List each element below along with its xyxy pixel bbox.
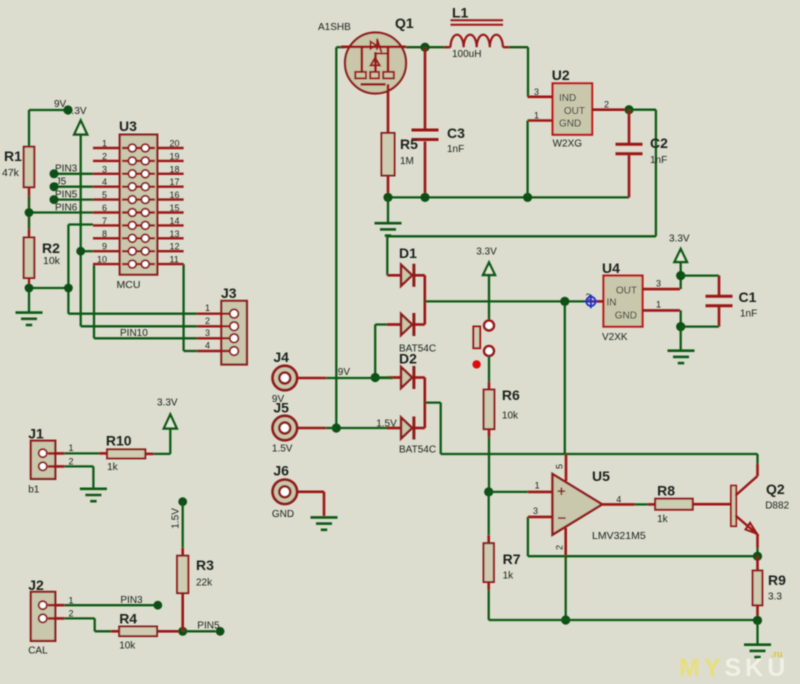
svg-text:3: 3 [533,506,538,516]
svg-text:C1: C1 [739,289,757,305]
svg-text:D2: D2 [399,351,417,367]
svg-text:1.5V: 1.5V [272,444,293,455]
svg-text:3.3V: 3.3V [476,247,497,258]
svg-text:2: 2 [604,100,609,110]
svg-text:J3: J3 [221,285,237,301]
svg-text:R9: R9 [768,572,786,588]
svg-text:1k: 1k [657,514,669,525]
svg-text:10k: 10k [502,411,519,422]
svg-text:J2: J2 [28,577,44,593]
svg-text:1: 1 [205,303,210,313]
svg-text:MCU: MCU [117,279,141,291]
svg-text:14: 14 [170,216,180,226]
svg-text:3.3: 3.3 [768,592,782,603]
svg-text:L1: L1 [452,5,469,21]
svg-text:U5: U5 [592,468,610,484]
svg-text:1nF: 1nF [650,155,667,166]
svg-text:A1SHB: A1SHB [318,22,351,33]
svg-text:2: 2 [102,151,107,161]
svg-text:5: 5 [102,190,107,200]
svg-text:17: 17 [170,177,180,187]
svg-text:R5: R5 [400,136,418,152]
svg-text:PIN3: PIN3 [120,595,143,606]
svg-text:R4: R4 [119,611,137,627]
svg-text:3: 3 [205,328,210,338]
svg-text:BAT54C: BAT54C [399,444,436,455]
svg-text:10k: 10k [119,641,136,652]
svg-text:2: 2 [69,457,74,467]
svg-text:18: 18 [170,164,180,174]
svg-text:1: 1 [69,595,74,605]
svg-text:1: 1 [69,443,74,453]
svg-text:5: 5 [555,464,565,469]
svg-text:1: 1 [535,481,540,491]
svg-text:15: 15 [170,203,180,213]
svg-text:9V: 9V [338,367,351,378]
svg-text:+: + [557,483,566,500]
svg-text:D1: D1 [399,245,417,261]
svg-text:12: 12 [170,242,180,252]
svg-text:16: 16 [170,190,180,200]
svg-text:R1: R1 [4,148,22,164]
svg-text:GND: GND [559,119,581,130]
svg-text:47k: 47k [2,167,20,179]
svg-text:V2XK: V2XK [602,332,628,343]
svg-text:2: 2 [69,609,74,619]
svg-text:C2: C2 [650,135,668,151]
svg-text:R3: R3 [196,557,214,573]
svg-text:13: 13 [170,229,180,239]
svg-text:3: 3 [534,87,539,97]
svg-text:100uH: 100uH [452,49,481,60]
svg-text:R2: R2 [42,240,60,256]
svg-text:6: 6 [102,203,107,213]
svg-text:U3: U3 [119,118,137,134]
svg-text:7: 7 [102,216,107,226]
svg-text:3.3V: 3.3V [157,398,178,409]
svg-text:9: 9 [102,242,107,252]
svg-text:IN: IN [607,297,617,308]
svg-text:J4: J4 [273,349,289,365]
svg-text:1M: 1M [400,156,414,167]
svg-text:22k: 22k [196,578,213,589]
svg-text:b1: b1 [28,485,40,496]
svg-text:OUT: OUT [616,285,637,296]
svg-text:J5: J5 [273,400,289,416]
svg-text:R10: R10 [106,433,132,449]
svg-text:GND: GND [615,311,637,322]
svg-text:Q1: Q1 [395,15,414,31]
svg-text:R7: R7 [503,551,521,567]
svg-text:3: 3 [656,279,661,289]
svg-text:1k: 1k [503,571,515,582]
svg-text:3: 3 [102,164,107,174]
svg-text:PIN3: PIN3 [55,164,78,175]
svg-text:PIN5: PIN5 [197,621,220,632]
svg-text:Q2: Q2 [766,481,785,497]
svg-text:.ru: .ru [771,649,783,659]
svg-text:1: 1 [656,300,661,310]
svg-text:4: 4 [102,177,107,187]
svg-text:LMV321M5: LMV321M5 [592,530,646,542]
svg-text:1nF: 1nF [447,144,464,155]
svg-text:4: 4 [205,341,210,351]
svg-text:GND: GND [272,509,294,520]
svg-text:1: 1 [102,139,107,149]
svg-text:−: − [558,510,567,527]
svg-text:4: 4 [616,494,621,504]
svg-text:J1: J1 [28,426,44,442]
svg-text:10k: 10k [43,255,61,267]
svg-text:20: 20 [170,139,180,149]
svg-text:R8: R8 [657,483,675,499]
svg-text:PIN6: PIN6 [55,203,78,214]
svg-text:3.3V: 3.3V [669,234,690,245]
svg-text:C3: C3 [447,125,465,141]
svg-text:IND: IND [559,93,576,104]
svg-text:1.5V: 1.5V [171,508,182,529]
svg-text:PIN10: PIN10 [120,328,148,339]
svg-text:J6: J6 [273,463,289,479]
svg-text:2: 2 [205,316,210,326]
svg-text:D882: D882 [765,501,789,512]
svg-text:1nF: 1nF [740,309,757,320]
svg-text:1: 1 [534,111,539,121]
svg-text:19: 19 [170,151,180,161]
svg-text:U2: U2 [552,67,570,83]
svg-text:OUT: OUT [564,106,585,117]
svg-text:11: 11 [170,255,179,265]
svg-text:1.5V: 1.5V [376,419,397,430]
svg-text:2: 2 [555,545,565,550]
svg-text:R6: R6 [502,387,520,403]
svg-text:CAL: CAL [28,646,48,657]
svg-text:10: 10 [97,255,107,265]
svg-text:W2XG: W2XG [553,139,583,150]
svg-text:8: 8 [102,229,107,239]
svg-text:1k: 1k [107,462,119,473]
svg-text:U4: U4 [602,260,620,276]
